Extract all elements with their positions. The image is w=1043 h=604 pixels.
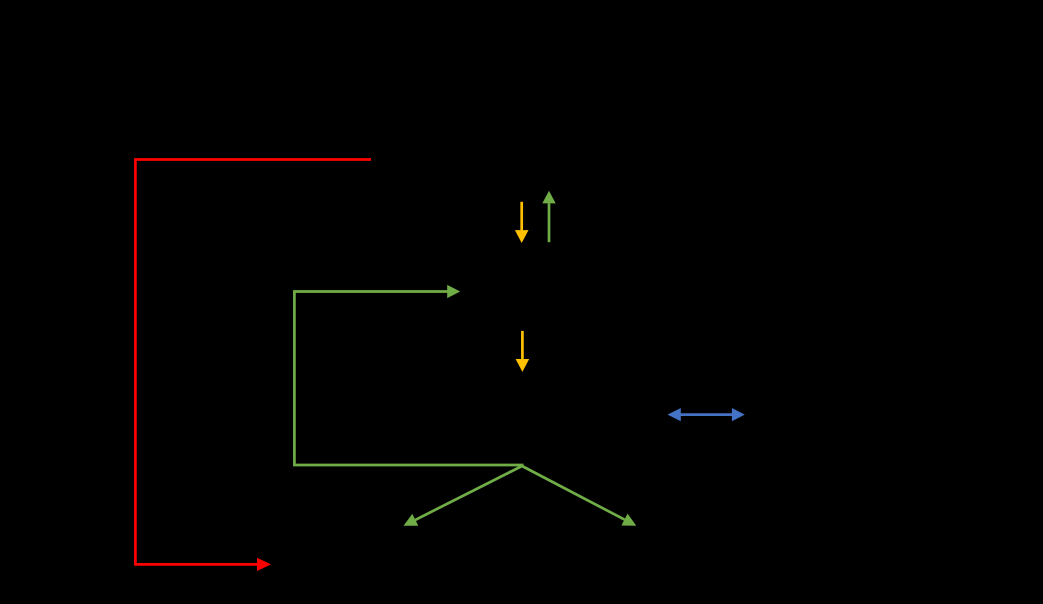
green diagonal arrow down-left — [404, 466, 523, 526]
blue double-headed arrow — [668, 408, 745, 421]
yellow down arrow 2 — [516, 331, 530, 372]
yellow down arrow 1 — [515, 202, 529, 243]
green elbow arrow (right arrowhead, down, right to apex) — [294, 285, 523, 465]
red elbow arrow (top line, left vertical, bottom arrow) — [135, 160, 371, 572]
green diagonal arrow down-right — [522, 466, 636, 526]
green up arrow — [542, 191, 555, 243]
